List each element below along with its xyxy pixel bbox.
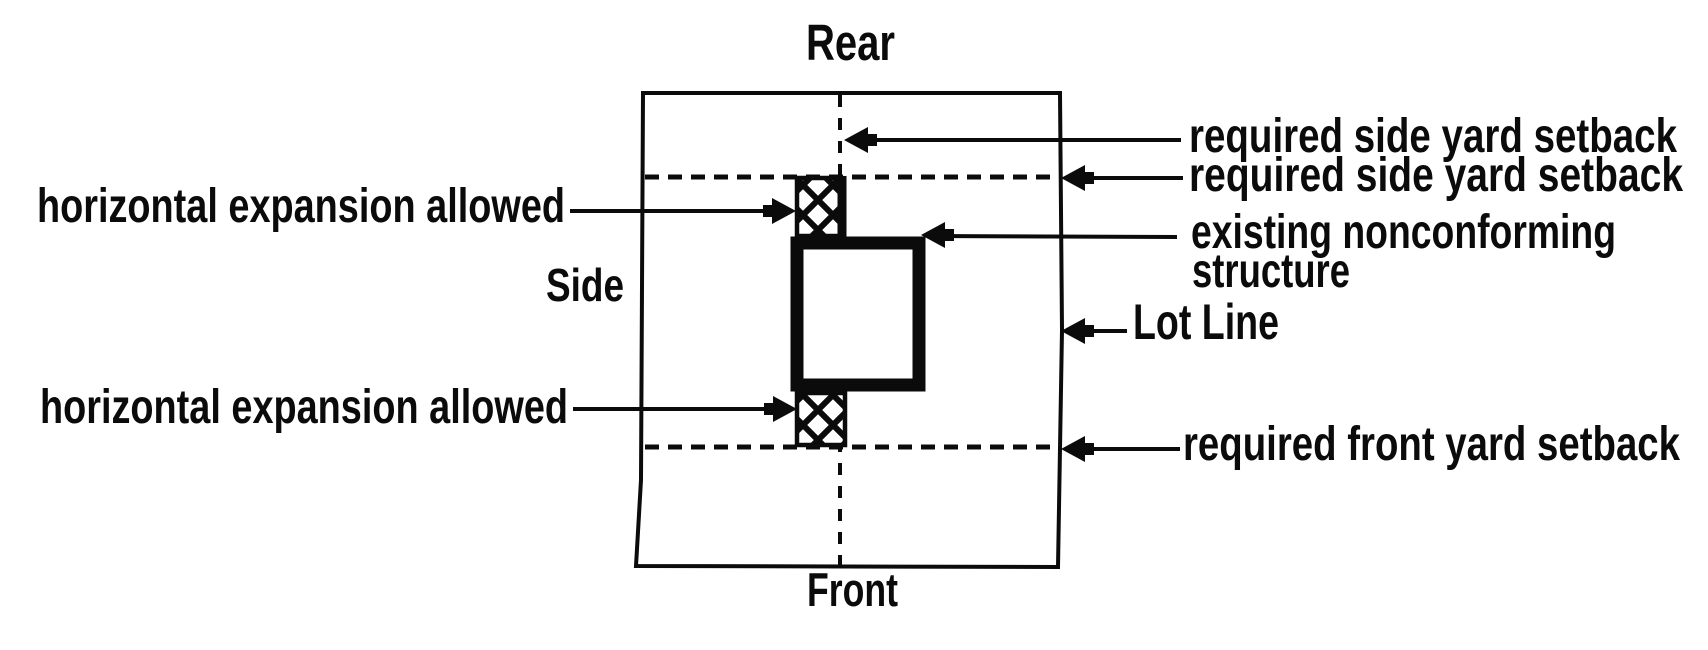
svg-text:required front yard setback: required front yard setback	[1183, 418, 1680, 471]
label: Rear	[806, 14, 895, 71]
svg-text:structure: structure	[1192, 245, 1350, 298]
svg-text:horizontal expansion allowed: horizontal expansion allowed	[40, 381, 568, 434]
leader: required side yard setback (line 2, at lot line)	[1061, 165, 1183, 191]
svg-text:Side: Side	[546, 259, 624, 311]
label: required side yard setback (line 2)	[1189, 149, 1683, 202]
required side yard setback dashed line (upper)	[645, 175, 1059, 180]
leader: required side yard setback (line 1, from center line)	[844, 127, 1181, 153]
leader: horizontal expansion allowed (bottom)	[573, 396, 797, 422]
label: Front	[807, 563, 898, 616]
leader: horizontal expansion allowed (top)	[570, 198, 796, 224]
svg-text:Rear: Rear	[806, 14, 895, 71]
required front yard setback dashed line (lower)	[645, 445, 1059, 450]
bottom hatched expansion box	[797, 393, 845, 445]
existing nonconforming structure (thick rectangle)	[797, 243, 919, 385]
label: required side yard setback (line 1)	[1189, 110, 1677, 163]
center vertical dashed lot division line	[838, 95, 842, 565]
leader: existing nonconforming structure	[921, 222, 1177, 248]
svg-text:Front: Front	[807, 563, 898, 616]
label: horizontal expansion allowed (top)	[37, 180, 565, 233]
label: Side	[546, 259, 624, 311]
leader: Lot Line	[1061, 318, 1127, 344]
svg-text:required side yard setback: required side yard setback	[1189, 149, 1683, 202]
label: Lot Line	[1133, 294, 1279, 350]
leader: required front yard setback	[1061, 436, 1180, 462]
label: existing nonconforming	[1191, 206, 1616, 259]
top hatched expansion box	[797, 176, 842, 238]
svg-text:horizontal expansion allowed: horizontal expansion allowed	[37, 180, 565, 233]
svg-text:Lot Line: Lot Line	[1133, 294, 1279, 350]
lot boundary rectangle	[636, 93, 1062, 567]
label: structure	[1192, 245, 1350, 298]
label: required front yard setback	[1183, 418, 1680, 471]
label: horizontal expansion allowed (bottom)	[40, 381, 568, 434]
